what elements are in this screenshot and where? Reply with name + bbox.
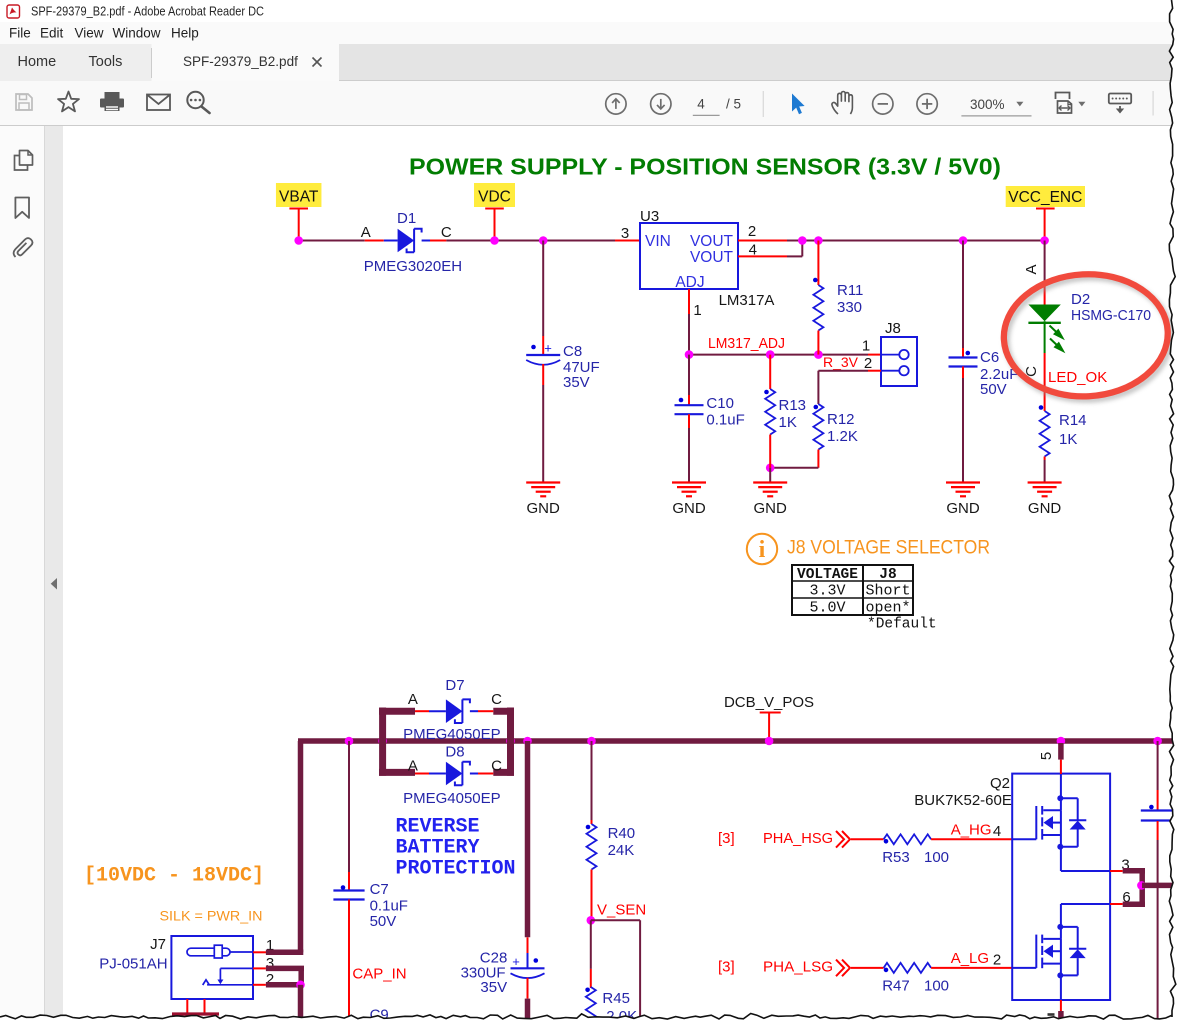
svg-text:A: A: [408, 691, 418, 708]
svg-text:View: View: [75, 26, 104, 41]
svg-text:[3]: [3]: [718, 830, 735, 847]
svg-text:PMEG3020EH: PMEG3020EH: [364, 258, 462, 275]
svg-text:U3: U3: [640, 208, 659, 225]
svg-text:J8: J8: [879, 567, 896, 583]
svg-text:J8: J8: [885, 320, 901, 337]
svg-text:VIN: VIN: [645, 233, 671, 250]
svg-text:R45: R45: [602, 990, 630, 1007]
svg-text:D1: D1: [397, 210, 416, 227]
svg-text:GND: GND: [1028, 500, 1062, 517]
svg-text:VBAT: VBAT: [279, 189, 319, 206]
svg-text:/ 5: / 5: [726, 97, 741, 112]
svg-text:0.1uF: 0.1uF: [706, 412, 744, 429]
svg-text:300%: 300%: [970, 97, 1005, 112]
svg-text:1: 1: [693, 302, 701, 319]
svg-text:5: 5: [1038, 752, 1055, 760]
svg-text:A: A: [1023, 264, 1040, 274]
svg-text:R53: R53: [882, 849, 910, 866]
svg-text:LM317_ADJ: LM317_ADJ: [708, 335, 785, 352]
svg-text:open*: open*: [865, 600, 910, 617]
svg-text:3: 3: [621, 225, 629, 242]
svg-text:24K: 24K: [608, 842, 635, 859]
svg-text:3.3V: 3.3V: [809, 583, 845, 600]
svg-text:GND: GND: [672, 500, 706, 517]
svg-text:2: 2: [864, 355, 872, 372]
svg-text:GND: GND: [527, 500, 561, 517]
svg-text:A_LG: A_LG: [951, 950, 989, 967]
svg-text:R_3V: R_3V: [823, 354, 859, 370]
svg-text:R13: R13: [779, 397, 807, 414]
svg-text:A: A: [361, 224, 371, 241]
svg-text:VDC: VDC: [478, 189, 511, 206]
svg-text:+: +: [512, 954, 520, 969]
svg-text:1: 1: [862, 338, 870, 355]
svg-text:A_HG: A_HG: [951, 821, 992, 838]
svg-text:D8: D8: [445, 744, 464, 761]
svg-text:+: +: [544, 341, 552, 356]
svg-text:C: C: [441, 224, 452, 241]
svg-text:BATTERY: BATTERY: [396, 837, 480, 860]
svg-text:35V: 35V: [480, 979, 507, 996]
svg-text:SPF-29379_B2.pdf - Adobe Acrob: SPF-29379_B2.pdf - Adobe Acrobat Reader …: [31, 4, 264, 19]
svg-text:50V: 50V: [980, 381, 1007, 398]
svg-text:GND: GND: [946, 500, 980, 517]
svg-text:J8 VOLTAGE SELECTOR: J8 VOLTAGE SELECTOR: [787, 538, 990, 559]
svg-text:Short: Short: [865, 583, 910, 600]
svg-text:DCB_V_POS: DCB_V_POS: [724, 694, 814, 711]
svg-text:PMEG4050EP: PMEG4050EP: [403, 726, 501, 743]
svg-text:D2: D2: [1071, 291, 1090, 308]
svg-text:PJ-051AH: PJ-051AH: [99, 956, 167, 973]
svg-text:HSMG-C170: HSMG-C170: [1071, 307, 1151, 324]
svg-text:Help: Help: [171, 26, 199, 41]
svg-text:C8: C8: [563, 343, 582, 360]
svg-text:R14: R14: [1059, 412, 1087, 429]
svg-text:4: 4: [993, 823, 1001, 840]
svg-text:Q2: Q2: [990, 775, 1010, 792]
svg-text:GND: GND: [754, 500, 788, 517]
svg-text:100: 100: [924, 978, 949, 995]
svg-text:SILK = PWR_IN: SILK = PWR_IN: [160, 908, 263, 924]
svg-text:35V: 35V: [563, 374, 590, 391]
svg-text:LED_OK: LED_OK: [1048, 369, 1107, 386]
svg-text:2: 2: [748, 223, 756, 240]
svg-text:ADJ: ADJ: [675, 274, 704, 291]
svg-text:PHA_HSG: PHA_HSG: [763, 830, 833, 847]
svg-text:Window: Window: [113, 26, 161, 41]
svg-text:100: 100: [924, 849, 949, 866]
svg-text:C: C: [491, 691, 502, 708]
svg-text:1.2K: 1.2K: [827, 428, 858, 445]
svg-text:VOUT: VOUT: [690, 249, 734, 266]
svg-text:R12: R12: [827, 411, 855, 428]
svg-text:VOUT: VOUT: [690, 233, 734, 250]
svg-text:V_SEN: V_SEN: [597, 902, 646, 919]
svg-text:Home: Home: [18, 54, 57, 70]
svg-text:i: i: [759, 537, 766, 563]
svg-text:Edit: Edit: [40, 26, 64, 41]
svg-text:A: A: [408, 758, 418, 775]
svg-text:2: 2: [993, 951, 1001, 968]
svg-text:[3]: [3]: [718, 958, 735, 975]
svg-text:J7: J7: [150, 936, 166, 953]
svg-text:PHA_LSG: PHA_LSG: [763, 958, 833, 975]
svg-text:D7: D7: [445, 677, 464, 694]
svg-text:R47: R47: [882, 978, 910, 995]
svg-text:50V: 50V: [370, 913, 397, 930]
svg-text:REVERSE: REVERSE: [396, 816, 480, 839]
svg-text:1K: 1K: [779, 414, 797, 431]
svg-text:5.0V: 5.0V: [809, 600, 845, 617]
svg-text:R40: R40: [608, 825, 636, 842]
svg-text:PROTECTION: PROTECTION: [396, 858, 516, 881]
svg-text:LM317A: LM317A: [719, 292, 775, 309]
svg-text:[10VDC - 18VDC]: [10VDC - 18VDC]: [84, 865, 264, 888]
svg-text:C7: C7: [370, 881, 389, 898]
svg-text:File: File: [9, 26, 31, 41]
svg-text:VCC_ENC: VCC_ENC: [1008, 189, 1082, 206]
svg-text:1K: 1K: [1059, 431, 1077, 448]
svg-text:*Default: *Default: [867, 617, 937, 633]
svg-text:POWER SUPPLY - POSITION SENSOR: POWER SUPPLY - POSITION SENSOR (3.3V / 5…: [409, 154, 1001, 180]
svg-text:330: 330: [837, 299, 862, 316]
svg-text:C10: C10: [706, 395, 734, 412]
svg-text:0.1uF: 0.1uF: [370, 898, 408, 915]
svg-text:Tools: Tools: [89, 54, 123, 70]
svg-text:VOLTAGE: VOLTAGE: [797, 567, 858, 583]
svg-text:BUK7K52-60E: BUK7K52-60E: [914, 792, 1012, 809]
svg-text:PMEG4050EP: PMEG4050EP: [403, 790, 501, 807]
svg-text:CAP_IN: CAP_IN: [352, 966, 406, 983]
svg-text:C: C: [491, 758, 502, 775]
svg-text:C6: C6: [980, 349, 999, 366]
svg-text:R11: R11: [837, 282, 863, 299]
svg-text:4: 4: [697, 97, 705, 112]
svg-text:SPF-29379_B2.pdf: SPF-29379_B2.pdf: [183, 54, 298, 69]
